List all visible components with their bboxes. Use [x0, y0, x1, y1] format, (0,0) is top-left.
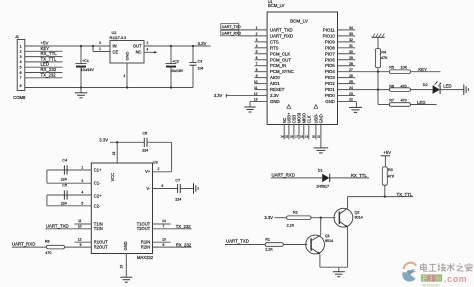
svg-text:UART_TXD: UART_TXD: [270, 27, 293, 32]
svg-text:PCM_IN: PCM_IN: [270, 63, 286, 68]
svg-text:UART_RXD: UART_RXD: [12, 242, 35, 247]
svg-text:3: 3: [99, 41, 101, 45]
junction node R3 / TX_TTL: [384, 195, 386, 197]
op-amp U1 BCM_LV module body: [267, 0, 337, 124]
net KEY: [410, 67, 440, 72]
wire emitter rail: [320, 266, 348, 268]
svg-text:20: 20: [312, 134, 316, 138]
svg-text:4: 4: [81, 191, 83, 195]
power +5V: [381, 150, 392, 167]
svg-text:28: 28: [349, 62, 353, 66]
junction node 3.3V / C2: [170, 45, 172, 47]
svg-text:U1: U1: [268, 0, 273, 4]
svg-text:+5V: +5V: [383, 150, 391, 155]
wire C6 to V+ (pin 2): [147, 142, 172, 172]
svg-text:COM8: COM8: [13, 95, 26, 100]
svg-text:3.3V: 3.3V: [198, 41, 207, 46]
svg-text:23: 23: [349, 92, 353, 96]
svg-text:LED: LED: [417, 100, 425, 105]
svg-text:PIO6: PIO6: [325, 57, 335, 62]
svg-text:RX_232: RX_232: [176, 242, 192, 247]
svg-text:26: 26: [349, 74, 353, 78]
wire Q1 emitter down: [319, 254, 321, 267]
svg-text:UART_RXD: UART_RXD: [222, 32, 242, 36]
svg-text:12: 12: [254, 92, 258, 96]
svg-text:C6: C6: [142, 131, 147, 135]
svg-text:10: 10: [78, 225, 82, 229]
svg-text:+C1: +C1: [82, 59, 89, 63]
svg-text:3: 3: [256, 38, 258, 42]
svg-text:KEY: KEY: [418, 67, 427, 72]
svg-text:V-: V-: [146, 186, 151, 191]
diode D1 1N5817: [316, 168, 330, 188]
svg-text:13: 13: [254, 98, 258, 102]
svg-text:9: 9: [256, 74, 258, 78]
svg-text:C4: C4: [62, 159, 67, 163]
svg-text:KEY: KEY: [41, 46, 50, 51]
svg-text:Q1: Q1: [325, 234, 330, 238]
wire R2 to Q2 base: [311, 217, 335, 219]
svg-text:3.3V: 3.3V: [214, 93, 223, 98]
svg-text:224: 224: [175, 197, 181, 201]
ground (Q1/Q2 emitters): [333, 267, 345, 277]
svg-text:R2IN: R2IN: [141, 245, 150, 250]
wire R1 to Q1 base: [283, 244, 307, 246]
pin stub R1IN: [153, 237, 171, 242]
svg-text:OUT: OUT: [133, 44, 142, 49]
svg-text:1: 1: [256, 26, 258, 30]
resistor R3 47K: [382, 167, 394, 197]
svg-text:2: 2: [147, 41, 149, 45]
svg-text:11: 11: [254, 86, 258, 90]
svg-text:32: 32: [349, 38, 353, 42]
junction node column/LED row: [377, 88, 379, 90]
net RX_232 from R2IN: [153, 242, 192, 247]
svg-text:4: 4: [256, 44, 258, 48]
wire C7 to ground: [180, 188, 193, 190]
power 3.3V bar above R4: [372, 34, 385, 49]
svg-text:C2+: C2+: [94, 193, 102, 198]
svg-text:PIO8: PIO8: [325, 45, 335, 50]
capacitor C1 10u/16V: [76, 46, 95, 88]
resistor R5 10K: [389, 66, 410, 74]
svg-text:PIO10: PIO10: [323, 33, 336, 38]
svg-text:UART_TXD: UART_TXD: [46, 224, 69, 229]
svg-text:IN: IN: [113, 44, 117, 49]
svg-text:Q2: Q2: [355, 210, 360, 214]
net UART_TXD to T2IN: [45, 224, 91, 229]
svg-text:AIO1: AIO1: [270, 81, 280, 86]
resistor R4 47K: [375, 49, 388, 72]
ground (U1 pin 13): [244, 98, 267, 112]
svg-text:4: 4: [20, 60, 22, 64]
svg-text:NC: NC: [136, 50, 142, 55]
svg-text:C3: C3: [198, 60, 203, 64]
svg-text:22: 22: [349, 98, 353, 102]
svg-text:10u/16V: 10u/16V: [170, 69, 184, 73]
svg-text:R1117-3.3: R1117-3.3: [110, 36, 127, 40]
watermark jiexiantu boxes: [421, 274, 468, 287]
ground (C7, rotated): [193, 183, 195, 194]
svg-text:LED: LED: [41, 62, 49, 67]
net LED: [410, 100, 436, 105]
wire net KEY from J1 pin2: [25, 46, 63, 52]
svg-text:R7: R7: [389, 99, 394, 103]
svg-text:U3: U3: [153, 160, 158, 164]
junction node +5V / C1: [80, 45, 82, 47]
node 3.3V (U1 pin 12): [214, 92, 267, 98]
svg-text:VCC: VCC: [110, 173, 115, 182]
transistor Q2 9014: [334, 208, 363, 227]
pin stubs U1 bottom: [280, 105, 323, 140]
wire net RX_TTL from J1 pin3: [25, 51, 63, 57]
svg-text:104: 104: [198, 67, 204, 71]
svg-text:3: 3: [81, 179, 83, 183]
svg-text:GND: GND: [123, 241, 128, 250]
svg-text:J1: J1: [15, 35, 19, 39]
svg-text:1N5817: 1N5817: [316, 185, 329, 189]
connector J1 (COM8): [13, 35, 26, 100]
svg-text:D2: D2: [423, 83, 428, 87]
svg-text:R1: R1: [265, 238, 270, 242]
svg-text:9: 9: [80, 243, 82, 247]
svg-text:1: 1: [20, 44, 22, 48]
svg-text:C1+: C1+: [94, 167, 102, 172]
watermark site name: [421, 263, 473, 271]
svg-text:470: 470: [401, 99, 407, 103]
svg-text:3.3V: 3.3V: [264, 215, 273, 220]
svg-text:25: 25: [349, 80, 353, 84]
svg-text:3.3V: 3.3V: [270, 93, 279, 98]
svg-text:47K: 47K: [388, 175, 395, 179]
svg-text:3.3V: 3.3V: [99, 137, 108, 142]
ground (U3 GND pin 15): [120, 254, 133, 283]
pin NC stub of U2: [144, 48, 157, 54]
watermark logo: [402, 263, 416, 282]
wire column R4 to R7: [377, 72, 379, 105]
svg-text:.com: .com: [444, 274, 467, 284]
capacitor C6 224: [142, 131, 148, 152]
pin stubs U1 right side with numbers: [338, 26, 357, 102]
net 3.3V rail to U3 VCC and C6: [99, 137, 144, 163]
wire KEY row from U1 PIO4: [338, 71, 390, 73]
net label UART_RXD (U1 pin 2): [221, 30, 267, 36]
capacitor C3 104: [189, 46, 203, 88]
svg-text:jiexiantu: jiexiantu: [421, 282, 441, 287]
junction node rail / U2 GND: [126, 86, 128, 88]
wire net LED from J1 pin5: [25, 62, 63, 68]
net label UART_TXD (U1 pin 1): [221, 24, 267, 30]
svg-text:2: 2: [158, 167, 160, 171]
svg-text:PCM_OUT: PCM_OUT: [270, 57, 291, 62]
junction node 3.3V / C3: [192, 45, 194, 47]
svg-text:18: 18: [300, 134, 304, 138]
svg-text:D1: D1: [318, 168, 323, 172]
svg-text:GND: GND: [270, 99, 280, 104]
resistor R2 2.2K: [287, 211, 312, 228]
net UART_RXD to D1: [271, 172, 322, 178]
svg-text:PIO1: PIO1: [325, 87, 335, 92]
svg-text:224: 224: [61, 201, 67, 205]
svg-text:7: 7: [162, 225, 164, 229]
pin stub T1OUT: [153, 219, 171, 224]
wire Q2 collector to TX_TTL: [347, 197, 349, 209]
svg-text:UART_RXD: UART_RXD: [272, 172, 295, 177]
svg-text:BCM_LV: BCM_LV: [290, 19, 308, 24]
svg-text:5: 5: [256, 50, 258, 54]
svg-text:R6: R6: [389, 84, 394, 88]
resistor R1 2.2K: [265, 238, 283, 252]
svg-text:21: 21: [317, 134, 321, 138]
svg-text:33: 33: [349, 32, 353, 36]
svg-text:2.2K: 2.2K: [265, 248, 273, 252]
svg-text:224: 224: [142, 148, 148, 152]
wire V- (pin 6) to C7: [153, 184, 178, 189]
net TX_TTL: [348, 192, 413, 197]
svg-text:R5: R5: [389, 66, 394, 70]
svg-text:8: 8: [162, 243, 164, 247]
svg-text:17: 17: [295, 134, 299, 138]
junction node R4/KEY: [377, 71, 379, 73]
wire D2 to ground: [440, 89, 464, 91]
IC U3 MAX232 body: [91, 160, 157, 259]
svg-text:10K: 10K: [401, 66, 408, 70]
svg-text:GND: GND: [319, 114, 324, 123]
svg-text:UART_TXD: UART_TXD: [226, 238, 249, 243]
svg-text:PIO7: PIO7: [325, 51, 335, 56]
svg-text:C7: C7: [175, 179, 180, 183]
junction node Q1 collector / Q2 base: [320, 217, 322, 219]
svg-text:16: 16: [112, 151, 116, 155]
ground (U1 right GND pin): [349, 102, 362, 113]
svg-text:T2OUT: T2OUT: [137, 226, 151, 231]
svg-text:8: 8: [256, 68, 258, 72]
svg-text:3: 3: [20, 55, 22, 59]
svg-text:9014: 9014: [355, 215, 363, 219]
svg-text:2: 2: [256, 32, 258, 36]
svg-text:15: 15: [120, 265, 124, 269]
junction node +5V / CE branch: [92, 45, 94, 47]
svg-text:TX_TTL: TX_TTL: [41, 56, 57, 61]
svg-text:PCM_SYNC: PCM_SYNC: [270, 69, 294, 74]
ground (rail): [75, 88, 88, 98]
svg-text:V+: V+: [145, 169, 151, 174]
pin stub T1IN: [75, 219, 92, 224]
svg-text:2.2K: 2.2K: [287, 224, 295, 228]
svg-text:U2: U2: [112, 31, 117, 35]
svg-text:7: 7: [20, 76, 22, 80]
svg-text:CTS: CTS: [270, 39, 279, 44]
svg-text:PCM_CLK: PCM_CLK: [270, 51, 290, 56]
svg-text:PIO2: PIO2: [325, 81, 335, 86]
svg-text:R3: R3: [388, 168, 393, 172]
svg-text:RX_TTL: RX_TTL: [351, 173, 368, 178]
svg-text:13: 13: [162, 237, 166, 241]
net UART_TXD to R1: [225, 238, 265, 244]
wire U2 OUT 3.3V rail: [144, 41, 211, 46]
svg-text:PIO3: PIO3: [325, 75, 335, 80]
svg-text:1: 1: [99, 47, 101, 51]
svg-text:PIO4: PIO4: [325, 69, 335, 74]
svg-text:14: 14: [162, 219, 166, 223]
svg-text:4: 4: [124, 74, 126, 78]
svg-text:T2IN: T2IN: [94, 226, 103, 231]
svg-text:BCM_LV: BCM_LV: [268, 3, 285, 8]
wire GND rail from J1 pin8: [25, 87, 193, 89]
svg-text:R2OUT: R2OUT: [94, 245, 108, 250]
svg-text:RX_232: RX_232: [41, 67, 57, 72]
wire LED row from U1 PIO1: [338, 89, 390, 91]
svg-text:RESET: RESET: [270, 87, 285, 92]
svg-text:16: 16: [290, 134, 294, 138]
junction node rail / C2: [170, 86, 172, 88]
regulator U2 R1117-3.3: [110, 31, 145, 63]
svg-text:1: 1: [81, 166, 83, 170]
svg-text:RX_TTL: RX_TTL: [41, 51, 58, 56]
svg-text:CLK: CLK: [306, 115, 311, 123]
svg-text:14: 14: [280, 134, 284, 138]
svg-text:15: 15: [285, 134, 289, 138]
wire net TX_TTL from J1 pin4: [25, 56, 63, 62]
wire net TX_232 from J1 pin7: [25, 72, 63, 78]
svg-text:34: 34: [349, 26, 353, 30]
svg-text:AIO0: AIO0: [270, 75, 280, 80]
capacitor C4 224 loop (pins 1,3): [47, 159, 91, 184]
svg-text:5: 5: [20, 66, 22, 70]
ground (LED, rotated): [463, 84, 465, 95]
wire CE branch: [93, 41, 110, 51]
net UART_RXD to R8: [12, 242, 47, 248]
svg-text:C1-: C1-: [94, 180, 101, 185]
svg-text:TX_232: TX_232: [41, 72, 57, 77]
svg-text:470: 470: [45, 251, 51, 255]
junction node rail / C1: [80, 86, 82, 88]
svg-text:PIO5: PIO5: [325, 63, 335, 68]
svg-text:6: 6: [256, 56, 258, 60]
resistor R8 470: [45, 240, 91, 255]
net RX_TTL: [330, 173, 369, 178]
svg-text:R2: R2: [293, 211, 298, 215]
svg-text:31: 31: [349, 44, 353, 48]
svg-text:+5V: +5V: [41, 40, 49, 45]
svg-text:GND: GND: [125, 52, 130, 61]
wire U2 GND to rail: [124, 63, 128, 88]
svg-text:R4: R4: [381, 50, 386, 54]
capacitor C7 224: [175, 179, 181, 202]
svg-text:10u/16V: 10u/16V: [81, 68, 95, 72]
svg-text:4: 4: [147, 48, 149, 52]
svg-text:6: 6: [162, 184, 164, 188]
svg-text:MAX232: MAX232: [137, 255, 154, 260]
net TX_232 from T2OUT: [153, 224, 192, 229]
svg-text:UART_TXD: UART_TXD: [222, 25, 241, 29]
pin stub R1OUT: [75, 237, 92, 242]
svg-text:PIO9: PIO9: [325, 39, 335, 44]
svg-text:47K: 47K: [381, 56, 388, 60]
transistor Q1 9014: [306, 234, 333, 254]
svg-text:GND: GND: [325, 99, 335, 104]
svg-text:CE: CE: [113, 50, 119, 55]
svg-text:12: 12: [78, 237, 82, 241]
svg-text:RTS: RTS: [270, 45, 279, 50]
junction node 3.3V / VCC stem: [116, 141, 118, 143]
svg-text:2: 2: [20, 50, 22, 54]
svg-text:TX_232: TX_232: [176, 224, 192, 229]
svg-text:11: 11: [78, 219, 82, 223]
svg-text:8: 8: [20, 84, 22, 88]
svg-text:UART_RXD: UART_RXD: [270, 33, 293, 38]
resistor R6 470: [389, 84, 410, 91]
svg-text:TX_TTL: TX_TTL: [397, 192, 413, 197]
capacitor C5 224 loop (pins 4,5): [47, 184, 91, 206]
LED D2: [423, 81, 452, 94]
wire R6 to D2: [410, 89, 432, 91]
svg-text:R8: R8: [45, 240, 50, 244]
svg-text:19: 19: [305, 134, 309, 138]
resistor R7 470: [389, 99, 410, 107]
net 3.3V to R2: [264, 215, 286, 220]
svg-text:29: 29: [349, 56, 353, 60]
ground (U1 bottom GND pin): [314, 139, 329, 153]
svg-text:5: 5: [81, 201, 83, 205]
svg-text:PIO0: PIO0: [325, 93, 335, 98]
svg-text:9014: 9014: [325, 239, 333, 243]
svg-text:LED: LED: [443, 83, 451, 88]
svg-text:7: 7: [256, 62, 258, 66]
svg-text:30: 30: [349, 50, 353, 54]
svg-text:10: 10: [254, 80, 258, 84]
capacitor C2 10u/16V: [166, 46, 184, 88]
svg-text:PIO11: PIO11: [323, 27, 335, 32]
wire Q1 collector up: [320, 218, 322, 235]
wire +5V from J1 pin1: [25, 40, 110, 46]
svg-text:470: 470: [401, 84, 407, 88]
wire Q2 emitter down: [347, 227, 349, 267]
svg-text:6: 6: [20, 71, 22, 75]
svg-text:224: 224: [61, 177, 67, 181]
svg-text:C5: C5: [62, 184, 67, 188]
wire net RX_232 from J1 pin6: [25, 67, 63, 73]
wire R7 row: [378, 104, 389, 106]
svg-text:+C2: +C2: [172, 60, 179, 64]
pin stubs U1 left pins 3-11: [254, 38, 267, 90]
svg-text:C2-: C2-: [94, 203, 101, 208]
